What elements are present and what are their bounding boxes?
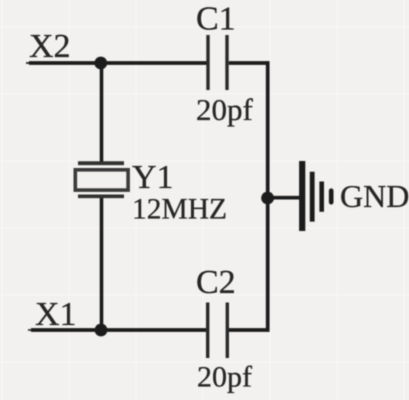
capacitor C2 [208, 303, 228, 359]
svg-text:X1: X1 [35, 296, 77, 333]
svg-text:GND: GND [340, 178, 409, 214]
svg-text:Y1: Y1 [132, 159, 174, 196]
wire: C2 to right vertical [229, 328, 270, 332]
wire: junction down to crystal [100, 63, 104, 162]
svg-text:20pf: 20pf [197, 361, 252, 394]
ground symbol [302, 161, 331, 231]
wire: stub to ground [268, 196, 301, 200]
wire: C1 to right vertical [229, 61, 270, 65]
wire: net X1 bottom horizontal [28, 329, 207, 331]
capacitor C1 [208, 35, 227, 90]
wire: right vertical bus [266, 61, 270, 332]
node: junction X2/crystal [94, 57, 107, 70]
svg-text:C2: C2 [196, 264, 236, 301]
svg-text:12MHZ: 12MHZ [132, 194, 227, 226]
crystal Y1 [75, 163, 128, 196]
wire: crystal down to bottom junction [100, 198, 104, 330]
svg-text:C1: C1 [196, 1, 236, 38]
node: junction GND tap [261, 192, 274, 205]
svg-text:20pf: 20pf [196, 92, 254, 127]
node: junction X1/crystal [95, 324, 108, 337]
svg-text:X2: X2 [29, 28, 71, 65]
wire: net X2 top horizontal [26, 62, 207, 64]
